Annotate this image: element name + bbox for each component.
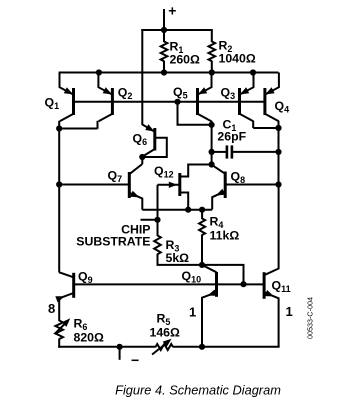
transistor Q3	[221, 73, 254, 129]
node R1 top junction	[161, 27, 167, 33]
resistor R3	[154, 220, 202, 265]
svg-text:Q11: Q11	[272, 278, 291, 294]
node R3-R4 junction	[199, 262, 205, 268]
node Q12 collector junction	[209, 161, 215, 167]
node Q6 collector junction	[139, 154, 145, 160]
transistor Q10	[182, 265, 217, 347]
resistor R2	[209, 29, 256, 73]
pin 1 label (Q11)	[286, 304, 293, 319]
transistor Q9	[55, 270, 92, 316]
svg-text:Q8: Q8	[231, 170, 246, 186]
wire emitter rail	[59, 72, 279, 74]
svg-text:1040Ω: 1040Ω	[219, 52, 256, 66]
svg-text:Q2: Q2	[118, 86, 133, 102]
node Q1 collector junction	[56, 125, 62, 131]
wire tail rail	[142, 209, 212, 211]
resistor R5	[150, 312, 181, 355]
node Q11 base junction	[240, 281, 246, 287]
svg-text:Q6: Q6	[133, 132, 148, 148]
resistor R4	[199, 210, 239, 265]
svg-text:1: 1	[189, 305, 196, 320]
svg-text:11kΩ: 11kΩ	[210, 229, 240, 243]
wire Q3 collector link	[253, 127, 278, 129]
transistor Q11	[264, 185, 290, 347]
svg-text:Q12: Q12	[154, 164, 174, 180]
resistor R1	[161, 30, 200, 73]
wire Q1-Q2 collector link	[59, 128, 97, 130]
node C1 left junction	[209, 149, 215, 155]
figure code 00533-C-004	[306, 297, 315, 339]
wire base rail Q1-Q4	[74, 101, 265, 103]
svg-text:146Ω: 146Ω	[150, 326, 181, 340]
node Q2 emitter junction	[96, 69, 102, 75]
wire top rail	[141, 29, 212, 125]
transistor Q7	[59, 164, 142, 210]
node base rail tap	[174, 99, 180, 105]
svg-text:8: 8	[48, 301, 55, 316]
node R4 top junction	[199, 207, 205, 213]
transistor Q5	[173, 73, 212, 126]
wire bottom rail right	[173, 346, 280, 348]
svg-text:00533-C-004: 00533-C-004	[306, 297, 315, 339]
transistor Q1	[45, 73, 74, 129]
svg-text:−: −	[131, 352, 139, 368]
svg-text:820Ω: 820Ω	[74, 331, 105, 345]
node C1 right junction	[275, 149, 281, 155]
node Q12 emitter junction	[185, 207, 191, 213]
node Q8 base junction	[275, 181, 281, 187]
transistor Q2	[98, 73, 133, 129]
pin 1 label (Q10)	[189, 305, 196, 320]
svg-text:Q1: Q1	[45, 96, 60, 112]
transistor Q6	[133, 124, 167, 157]
svg-text:Q10: Q10	[182, 269, 202, 285]
positive supply terminal	[164, 2, 176, 30]
svg-text:Q7: Q7	[108, 169, 123, 185]
node Q5 collector junction	[209, 122, 215, 128]
svg-text:Q4: Q4	[275, 99, 290, 115]
wire Q5C to C1	[211, 125, 213, 165]
svg-text:5kΩ: 5kΩ	[166, 251, 190, 265]
wire base tap drop	[178, 102, 212, 125]
node R1 bottom junction	[161, 69, 167, 75]
svg-text:26pF: 26pF	[217, 129, 246, 143]
svg-text:Figure 4. Schematic Diagram: Figure 4. Schematic Diagram	[115, 383, 281, 398]
wire Q6C to Q7C	[141, 157, 143, 164]
svg-text:260Ω: 260Ω	[170, 53, 201, 67]
node Q3-Q4 collector junction	[275, 125, 281, 131]
node R2 bottom junction	[209, 69, 215, 75]
svg-text:+: +	[168, 2, 176, 18]
wire Q12 base drop	[157, 185, 159, 220]
svg-text:Q9: Q9	[78, 270, 93, 286]
wire Q10C to Q11 base	[202, 265, 244, 284]
svg-text:SUBSTRATE: SUBSTRATE	[76, 235, 150, 249]
caption	[115, 383, 281, 398]
negative supply terminal	[117, 344, 140, 368]
wire left bus	[58, 129, 60, 273]
node Q3 emitter junction	[250, 69, 256, 75]
node Q7 base junction	[56, 181, 62, 187]
svg-text:1: 1	[286, 304, 293, 319]
wire lower base rail	[74, 283, 264, 285]
svg-text:Q5: Q5	[173, 85, 188, 101]
node Q10 emitter junction	[199, 344, 205, 350]
wire bottom rail left	[58, 346, 156, 348]
resistor R6	[55, 315, 104, 348]
pin 8 label	[48, 301, 55, 316]
wire right bus upper	[278, 128, 280, 185]
node substrate junction	[154, 217, 160, 223]
transistor Q4	[265, 73, 289, 129]
transistor Q8	[212, 165, 279, 210]
transistor Q12	[154, 164, 212, 210]
svg-text:Q3: Q3	[221, 86, 236, 102]
capacitor C1	[212, 118, 279, 159]
chip substrate connection	[76, 220, 157, 249]
